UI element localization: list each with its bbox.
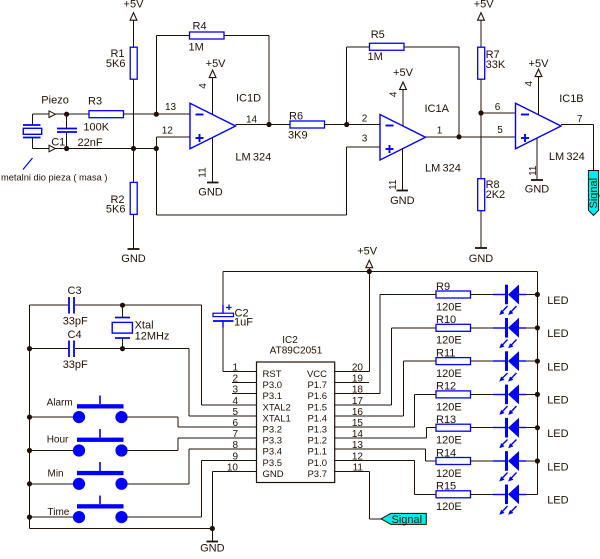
wire arrow to node	[56, 113, 67, 115]
junction left rail / Hour switch	[27, 448, 32, 453]
svg-text:GND: GND	[469, 253, 494, 265]
port Signal (vertical flag)	[588, 171, 600, 216]
resistor R14	[436, 458, 471, 465]
svg-text:+5V: +5V	[393, 67, 414, 79]
IC2 pin name VCC	[307, 369, 327, 380]
IC2 pin number 1	[232, 363, 238, 374]
label R9	[436, 281, 450, 293]
junction anode bus / LED 5	[535, 425, 540, 430]
wire R12 to LED 4	[471, 394, 494, 396]
resistor R3	[89, 111, 124, 118]
IC2 pin number 3	[232, 385, 238, 396]
wire LED 4 to anode bus	[526, 394, 538, 396]
label R12	[436, 381, 456, 393]
wire LED 2 to anode bus	[526, 327, 538, 329]
resistor R6	[290, 121, 325, 128]
svg-text:LM 324: LM 324	[235, 152, 271, 164]
wire +5V to R1	[133, 20, 135, 47]
pushbutton switch Time	[73, 496, 128, 524]
junction bias rail / pin 12 branch / IC1A branch	[154, 146, 159, 151]
+5V power (IC1A)	[393, 67, 414, 90]
IC2 pin name XTAL2	[263, 402, 291, 413]
wire bias rail to IC1D non-inverting input	[157, 137, 191, 149]
value R6 3K9	[288, 130, 308, 142]
svg-text:LED: LED	[547, 295, 568, 307]
value R8 2K2	[486, 189, 506, 201]
IC2 pin name P1.7	[307, 380, 327, 391]
svg-text:C3: C3	[68, 285, 82, 297]
wire to ground symbol	[212, 529, 214, 542]
svg-text:P3.1: P3.1	[263, 391, 283, 402]
wire +5V to R7	[480, 20, 482, 47]
pin number 5	[497, 125, 503, 136]
wire IC1A output to IC1B non-inverting input (crosses R7 rail)	[426, 136, 516, 138]
junction piezo bottom / C1 on bias rail	[64, 146, 69, 151]
wire bias rail to IC1A non-inverting input	[157, 147, 381, 215]
svg-text:LED: LED	[547, 428, 568, 440]
svg-text:R6: R6	[289, 111, 303, 123]
wire LED anode bus from +5V rail	[537, 272, 539, 495]
wire rail to C3	[30, 304, 69, 306]
value R15 120E	[436, 501, 462, 513]
op-amp IC1A	[380, 115, 426, 161]
ground (below R8)	[469, 248, 494, 265]
svg-text:P3.4: P3.4	[263, 447, 283, 458]
svg-text:Piezo: Piezo	[41, 95, 69, 107]
svg-text:GND: GND	[525, 183, 550, 195]
wire node to R3	[67, 113, 90, 115]
wire LED 6 to anode bus	[526, 460, 538, 462]
wire rail to C4	[30, 348, 69, 350]
svg-text:4: 4	[388, 91, 399, 97]
wire VCC pin 20 to +5V rail	[335, 272, 370, 372]
svg-text:IC1B: IC1B	[559, 93, 583, 105]
wire divider rail (crosses IC1A output wire)	[480, 113, 482, 179]
svg-text:120E: 120E	[436, 501, 462, 513]
wire rail to Hour switch	[30, 450, 74, 452]
junction +5V rail / VCC	[367, 269, 372, 274]
ground (IC1B)	[525, 180, 550, 195]
svg-text:P1.6: P1.6	[307, 391, 327, 402]
IC2 pin name RST	[263, 369, 282, 380]
svg-text:+5V: +5V	[474, 0, 495, 11]
wire crystal top lead	[122, 305, 124, 318]
svg-text:LED: LED	[547, 328, 568, 340]
op-amp IC1D	[190, 103, 236, 149]
crystal Xtal 12MHz	[112, 318, 132, 339]
IC2 pin number 18	[352, 385, 364, 396]
svg-text:6: 6	[232, 418, 238, 429]
svg-text:2K2: 2K2	[486, 189, 506, 201]
resistor R12	[436, 391, 471, 398]
junction left rail / Time switch	[27, 515, 32, 520]
svg-text:R13: R13	[436, 414, 456, 426]
svg-text:C4: C4	[68, 329, 82, 341]
wire pin2 to R5	[347, 47, 370, 125]
junction left rail / Alarm switch	[27, 415, 32, 420]
label R11	[436, 347, 455, 359]
label LED 2	[547, 328, 568, 340]
wire R14 to LED 6	[471, 460, 494, 462]
+5V power (R7)	[474, 0, 495, 20]
resistor R15	[436, 491, 471, 498]
annotation pointer line	[23, 158, 33, 170]
svg-text:11: 11	[388, 179, 399, 190]
LED D6	[493, 451, 526, 482]
svg-text:VCC: VCC	[307, 369, 327, 380]
svg-text:IC1D: IC1D	[236, 93, 261, 105]
resistor R5	[370, 43, 405, 50]
IC2 pin number 11	[353, 462, 364, 473]
IC2 pin name P1.4	[307, 413, 327, 424]
svg-text:P1.4: P1.4	[307, 413, 327, 424]
label Time	[48, 507, 70, 518]
pin number 4 (IC1D, rotated)	[198, 83, 209, 89]
svg-text:120E: 120E	[436, 335, 462, 347]
junction anode bus / LED 2	[535, 325, 540, 330]
label Xtal	[135, 320, 154, 332]
+5V power (IC1B)	[529, 58, 550, 77]
pin number 3	[362, 134, 368, 145]
svg-text:R15: R15	[436, 481, 456, 493]
wire IC1B output to Signal port	[561, 125, 594, 171]
svg-text:P1.5: P1.5	[307, 402, 327, 413]
svg-text:+5V: +5V	[529, 58, 550, 70]
value R4 1M	[189, 42, 204, 54]
svg-text:R12: R12	[436, 381, 456, 393]
IC2 pin number 16	[352, 407, 364, 418]
IC2 pin name GND	[263, 469, 284, 480]
svg-text:Signal: Signal	[392, 514, 423, 526]
svg-text:4: 4	[232, 396, 238, 407]
LED D4	[493, 384, 526, 415]
wire pin13 to R4	[157, 36, 191, 115]
svg-text:R4: R4	[193, 21, 207, 33]
IC2 pin name P1.0	[307, 458, 327, 469]
value C3 33pF	[63, 316, 88, 328]
svg-text:XTAL2: XTAL2	[263, 402, 291, 413]
junction R4 / IC1D output	[266, 122, 271, 127]
arrow marker (piezo top wire)	[49, 111, 55, 118]
svg-text:120E: 120E	[436, 301, 462, 313]
wire C4 to XTAL1 pin 5	[189, 349, 257, 417]
junction anode bus / LED 4	[535, 392, 540, 397]
wire +5V to IC1B V+ pin	[538, 77, 540, 116]
wire IC1D V- pin to ground	[212, 138, 214, 183]
IC2 pin name P3.7	[307, 469, 327, 480]
label Piezo	[41, 95, 69, 107]
svg-text:33pF: 33pF	[63, 316, 88, 328]
wire ground to GND pin 10	[213, 472, 257, 529]
op-amp IC1A designator	[425, 103, 450, 115]
label R15	[436, 481, 456, 493]
IC2 pin number 5	[232, 407, 238, 418]
svg-text:LM 324: LM 324	[425, 163, 461, 175]
svg-text:120E: 120E	[436, 401, 462, 413]
LED D7	[493, 484, 526, 515]
wire IC1B V- pin to ground	[536, 138, 538, 181]
svg-text:R11: R11	[436, 347, 455, 359]
wire IC2 pin 12 to R15	[335, 461, 437, 495]
svg-text:P3.5: P3.5	[263, 458, 283, 469]
value R9 120E	[436, 301, 462, 313]
value R7 33K	[486, 59, 506, 71]
junction R1/R2 divider on bias rail	[131, 146, 136, 151]
junction C4 / crystal bottom	[120, 346, 125, 351]
svg-text:Alarm: Alarm	[47, 397, 73, 408]
value R5 1M	[368, 51, 383, 63]
IC2 pin name XTAL1	[263, 413, 291, 424]
wire IC1D output to R6	[236, 124, 291, 126]
svg-text:Signal: Signal	[588, 178, 600, 209]
svg-text:120E: 120E	[436, 435, 462, 447]
junction left rail / C4	[27, 346, 32, 351]
capacitor C4	[69, 341, 74, 358]
svg-text:Min: Min	[48, 469, 64, 480]
svg-text:R5: R5	[371, 29, 385, 41]
IC2 pin name P1.3	[307, 425, 327, 436]
svg-text:10: 10	[227, 462, 239, 473]
svg-text:metalni dio pieza ( masa ): metalni dio pieza ( masa )	[1, 173, 107, 183]
resistor R2	[130, 182, 137, 214]
svg-text:R10: R10	[436, 314, 456, 326]
IC2 pin number 7	[232, 429, 238, 440]
IC2 pin number 17	[352, 396, 364, 407]
wire IC2 pin 13 to R14	[335, 449, 437, 461]
svg-text:3: 3	[362, 134, 368, 145]
resistor R9	[436, 291, 471, 298]
wire rail down to C2	[222, 272, 224, 306]
svg-text:120E: 120E	[436, 368, 462, 380]
IC2 pin name P1.5	[307, 402, 327, 413]
svg-text:P1.2: P1.2	[307, 436, 327, 447]
label R4	[193, 21, 207, 33]
wire C4 to XTAL1 branch	[75, 348, 189, 350]
svg-text:LED: LED	[547, 495, 568, 507]
svg-text:C1: C1	[51, 136, 65, 148]
svg-text:5: 5	[497, 125, 503, 136]
label Alarm	[47, 397, 73, 408]
svg-text:4: 4	[198, 83, 209, 89]
svg-text:9: 9	[232, 451, 238, 462]
wire IC2 pin 14 to R13	[335, 428, 437, 439]
+5V power (IC1D)	[206, 58, 227, 78]
value C4 33pF	[63, 359, 88, 371]
LED D2	[493, 318, 526, 349]
svg-text:120E: 120E	[436, 468, 462, 480]
svg-text:P1.1: P1.1	[307, 447, 327, 458]
svg-text:100K: 100K	[83, 122, 109, 134]
pin number 6	[495, 102, 501, 113]
wire R6 to IC1A inverting input	[325, 124, 381, 126]
wire piezo top lead	[32, 114, 34, 125]
junction anode bus / LED 1	[535, 292, 540, 297]
value R12 120E	[436, 401, 462, 413]
wire LED 3 to anode bus	[526, 360, 538, 362]
wire R3 to IC1D inverting input (crosses divider rail)	[124, 113, 191, 115]
value R1 5K6	[106, 58, 126, 70]
LED D1	[493, 285, 526, 316]
svg-text:GND: GND	[198, 187, 223, 199]
wire left ground rail	[29, 305, 31, 529]
label Hour	[47, 435, 69, 446]
wire piezo bottom lead	[32, 138, 34, 149]
pin number 4 (IC1B, rotated)	[524, 80, 535, 86]
IC2 pin name P1.6	[307, 391, 327, 402]
label LED 3	[547, 361, 568, 373]
wire +5V rail	[223, 271, 538, 273]
junction ground rail / MCU GND	[210, 526, 215, 531]
wire divider to IC1B inverting input	[481, 112, 516, 114]
wire R5 to IC1A output	[404, 47, 459, 137]
ground (IC1A)	[390, 191, 415, 208]
wire IC2 pin 2 stub (n.c.)	[232, 382, 257, 384]
wire Hour switch to MCU	[128, 438, 257, 451]
wire piezo top to arrow	[33, 113, 50, 115]
svg-text:AT89C2051: AT89C2051	[270, 345, 323, 356]
wire R9 to LED 1	[471, 294, 494, 296]
IC2 pin name P3.1	[263, 391, 283, 402]
wire C2 to RST pin 1	[223, 328, 257, 372]
junction R7/R8 divider / pin 6	[478, 110, 483, 115]
wire R2 to ground	[133, 215, 135, 250]
svg-text:R3: R3	[88, 96, 102, 108]
label LED 5	[547, 428, 568, 440]
svg-text:33K: 33K	[486, 59, 506, 71]
wire C3 to XTAL2 pin 4	[202, 305, 257, 405]
svg-text:P1.0: P1.0	[307, 458, 327, 469]
svg-text:IC1A: IC1A	[425, 103, 450, 115]
svg-text:LM 324: LM 324	[549, 151, 585, 163]
resistor R1	[130, 47, 137, 79]
pushbutton switch Alarm	[73, 396, 128, 424]
svg-text:GND: GND	[263, 469, 284, 480]
svg-text:1M: 1M	[189, 42, 204, 54]
pin number 13	[165, 102, 177, 113]
IC2 pin number 13	[352, 440, 364, 451]
label C2	[235, 308, 249, 320]
LED D3	[493, 351, 526, 382]
resistor R13	[436, 424, 471, 431]
value C2 1uF	[234, 317, 253, 329]
+5V power (R1)	[124, 0, 145, 20]
svg-text:P3.7: P3.7	[307, 469, 327, 480]
wire LED 5 to anode bus	[526, 427, 538, 429]
IC2 pin number 10	[227, 462, 239, 473]
value R2 5K6	[106, 204, 126, 216]
svg-text:LED: LED	[547, 461, 568, 473]
label R10	[436, 314, 456, 326]
wire IC2 pin 3 stub (n.c.)	[232, 393, 257, 395]
svg-text:13: 13	[352, 440, 364, 451]
svg-text:7: 7	[577, 114, 583, 125]
svg-text:P1.7: P1.7	[307, 380, 327, 391]
svg-text:5K6: 5K6	[106, 204, 126, 216]
label LED 1	[547, 295, 568, 307]
pin number 14	[246, 115, 258, 126]
value C1 22nF	[78, 137, 103, 149]
wire Alarm switch to MCU	[128, 417, 257, 427]
svg-text:1: 1	[437, 125, 443, 136]
label C3	[68, 285, 82, 297]
svg-text:1uF: 1uF	[234, 317, 253, 329]
wire crystal bottom lead	[122, 338, 124, 349]
value R10 120E	[436, 335, 462, 347]
svg-text:GND: GND	[121, 253, 146, 265]
IC2 part value AT89C2051	[270, 345, 323, 356]
svg-text:22nF: 22nF	[78, 137, 103, 149]
svg-text:+5V: +5V	[124, 0, 145, 11]
IC2 pin name P1.1	[307, 447, 327, 458]
IC U2 AT89C2051 body	[257, 362, 335, 483]
wire +5V to IC1D V+ pin	[212, 78, 214, 115]
wire rail to Min switch	[30, 483, 74, 485]
IC2 pin number 20	[352, 363, 364, 374]
pin number 11 (IC1A, rotated)	[388, 179, 399, 190]
op-amp IC1A part value LM324	[425, 163, 461, 175]
wire IC2 pin 15 to R12	[335, 395, 437, 428]
svg-text:XTAL1: XTAL1	[263, 413, 291, 424]
wire arrow to bias rail	[56, 148, 67, 150]
IC2 pin number 8	[232, 440, 238, 451]
label R13	[436, 414, 456, 426]
wire Min switch to MCU	[128, 449, 257, 484]
wire Time switch to MCU	[128, 461, 257, 518]
ground (logic)	[200, 542, 225, 555]
piezo transducer	[23, 125, 42, 138]
arrow marker (piezo bottom wire)	[49, 145, 55, 152]
wire IC2 pin 17 to R10	[335, 328, 437, 405]
pin number 2	[362, 114, 368, 125]
IC2 pin name P1.2	[307, 436, 327, 447]
pin number 11 (IC1D, rotated)	[197, 167, 208, 178]
capacitor C3	[69, 297, 74, 314]
IC2 pin number 2	[232, 374, 238, 385]
value R11 120E	[436, 368, 462, 380]
value R13 120E	[436, 435, 462, 447]
LED D5	[493, 418, 526, 449]
pin number 11 (IC1B, rotated)	[528, 165, 539, 176]
svg-text:LED: LED	[547, 395, 568, 407]
pin number 4 (IC1A, rotated)	[388, 91, 399, 97]
svg-text:R9: R9	[436, 281, 450, 293]
label C1	[51, 136, 65, 148]
wire LED 7 to anode bus	[526, 494, 538, 496]
resistor R4	[190, 32, 225, 39]
wire rail to Alarm switch	[30, 416, 74, 418]
resistor R8	[478, 179, 485, 211]
svg-text:Hour: Hour	[47, 435, 69, 446]
IC2 pin number 12	[352, 451, 364, 462]
wire C1 bottom to bias rail	[66, 132, 68, 149]
wire bottom ground rail	[30, 528, 213, 530]
junction anode bus / LED 6	[535, 458, 540, 463]
svg-text:12: 12	[162, 125, 174, 136]
svg-text:14: 14	[246, 115, 258, 126]
label C4	[68, 329, 82, 341]
wire IC2 pin 16 to R11	[335, 361, 437, 416]
junction piezo top / C1 / R3	[64, 112, 69, 117]
pin number 12	[162, 125, 174, 136]
svg-text:+5V: +5V	[206, 58, 227, 70]
wire C3 to XTAL2 branch	[75, 304, 202, 306]
svg-text:11: 11	[197, 167, 208, 178]
label R3	[88, 96, 102, 108]
svg-text:4: 4	[524, 80, 535, 86]
svg-text:+5V: +5V	[357, 246, 378, 258]
svg-text:3K9: 3K9	[288, 130, 308, 142]
wire +5V arrow to rail	[369, 268, 371, 272]
